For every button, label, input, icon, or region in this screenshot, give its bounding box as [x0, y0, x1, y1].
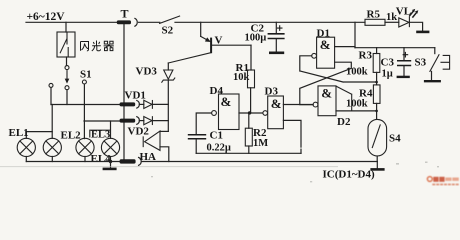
- wire lamp feed row 2: [84, 120, 120, 122]
- svg-text:&: &: [221, 94, 232, 109]
- svg-text:IC(D1~D4): IC(D1~D4): [323, 169, 375, 181]
- svg-text:T: T: [121, 7, 129, 21]
- wire from right socket down: [83, 84, 85, 139]
- resistor R3: [346, 48, 380, 85]
- connector plug VD2 row: [120, 117, 140, 125]
- capacitor C1: [188, 130, 231, 154]
- svg-text:1M: 1M: [253, 138, 268, 149]
- svg-text:VD1: VD1: [125, 90, 146, 102]
- wire D4-D3 link: [239, 112, 263, 114]
- resistor R5: [365, 9, 397, 26]
- wire flasher stub: [65, 22, 67, 32]
- diode (lower, row 2): [139, 117, 168, 125]
- svg-text:VL: VL: [396, 5, 411, 17]
- wire EL2 riser: [51, 105, 53, 139]
- svg-text:VD2: VD2: [128, 126, 150, 138]
- svg-text:&: &: [321, 86, 332, 101]
- connector T: [117, 7, 137, 27]
- switch S3 (pushbutton): [415, 48, 450, 81]
- svg-text:VD3: VD3: [136, 66, 158, 78]
- scan artifact line: [0, 166, 338, 168]
- wire D2 input 2: [336, 110, 377, 112]
- switch S4 (tilt/vibration): [368, 119, 401, 156]
- svg-text:EL2: EL2: [61, 130, 82, 142]
- lamp EL1: [9, 127, 36, 156]
- wire top rail left: [26, 21, 117, 23]
- wire VL to ground: [409, 22, 422, 31]
- wire EL4 riser: [110, 121, 112, 138]
- wire D1 input 1 to rail: [335, 46, 355, 48]
- diode VD3 (zener): [136, 66, 175, 132]
- svg-text:&: &: [271, 96, 282, 111]
- resistor R1: [233, 62, 255, 113]
- flasher box (闪光器): [57, 32, 75, 57]
- wire lamp feed row 1: [51, 104, 120, 106]
- socket left terminal: [49, 83, 53, 87]
- svg-text:+6~12V: +6~12V: [27, 11, 66, 23]
- lamp EL2: [43, 130, 81, 157]
- svg-text:D2: D2: [337, 116, 351, 128]
- wire top rail middle (T to S2): [139, 21, 160, 23]
- ground (VL): [416, 31, 429, 34]
- diode VD1: [139, 100, 168, 108]
- wire S4 bottom: [376, 156, 378, 162]
- LED VL: [396, 5, 419, 27]
- gate D1: [312, 28, 335, 69]
- gate D4: [210, 85, 240, 130]
- wire T bus vertical: [123, 25, 125, 160]
- wire base to R1: [250, 45, 252, 70]
- svg-text:0.22µ: 0.22µ: [207, 143, 231, 154]
- connector plug HA: [120, 151, 156, 165]
- socket S1 center terminal: [65, 86, 69, 90]
- wire collector to VD3: [167, 63, 169, 70]
- node lamp-ground junction: [109, 160, 112, 163]
- resistor R2: [245, 113, 268, 153]
- svg-text:S4: S4: [389, 133, 401, 145]
- wire EL3 label bracket: [90, 130, 111, 137]
- switch S1 right terminal: [82, 80, 86, 84]
- svg-text:C3: C3: [381, 57, 395, 69]
- capacitor C2: [245, 22, 285, 53]
- lamp EL3: [76, 129, 110, 156]
- svg-text:S2: S2: [162, 25, 174, 37]
- gate D3: [263, 86, 284, 129]
- wire from center socket down: [66, 90, 68, 105]
- wire bottom rail: [142, 161, 377, 163]
- svg-text:R3: R3: [359, 50, 373, 62]
- wire D2 corner link: [336, 86, 352, 111]
- wire right rail horizontal: [355, 47, 435, 49]
- wire from left socket down: [50, 87, 52, 104]
- wire R5 to VL: [385, 21, 399, 23]
- svg-text:&: &: [320, 37, 331, 52]
- svg-text:EL4: EL4: [91, 153, 112, 165]
- wire lamp bottom stubs: [26, 157, 110, 162]
- socket S1 terminal (flasher output): [66, 57, 68, 66]
- wire top rail right (S2 to R5): [175, 21, 365, 23]
- wire D3 input 1 to D2 output: [283, 104, 312, 106]
- wire D2 output cross-couple: [300, 62, 352, 104]
- svg-text:100k: 100k: [346, 67, 368, 78]
- gate D2: [313, 86, 351, 129]
- wire D4 output to C1: [196, 113, 211, 134]
- wire C1 bottom run: [196, 152, 301, 154]
- svg-text:S1: S1: [80, 69, 92, 81]
- wire lamp bottom rail: [26, 161, 120, 163]
- svg-text:C1: C1: [210, 130, 223, 142]
- svg-text:100µ: 100µ: [245, 33, 267, 44]
- watermark logo: [427, 177, 458, 186]
- wire right rail vertical: [354, 22, 356, 47]
- node R4/S4 junction: [375, 110, 378, 113]
- wire D1 output cross-couple: [300, 56, 377, 82]
- resistor R4: [346, 85, 380, 120]
- label 闪光器 (drawn glyphs): [81, 41, 114, 51]
- node R3/R4 junction: [375, 81, 378, 84]
- capacitor C3: [381, 48, 412, 80]
- connector plug VD1: [120, 90, 146, 109]
- svg-text:S3: S3: [415, 57, 427, 69]
- svg-text:R5: R5: [367, 9, 381, 21]
- svg-text:1µ: 1µ: [382, 69, 393, 80]
- svg-text:100k: 100k: [346, 99, 368, 110]
- node R1/R2 junction: [248, 111, 251, 114]
- ground (lamps): [110, 162, 112, 169]
- wire D3 input 2 to C1: [283, 120, 301, 153]
- diode VD2 (large, pointing left): [143, 131, 169, 162]
- switch S2: [160, 16, 180, 36]
- transistor V: [168, 22, 251, 63]
- plug arrow: [66, 71, 68, 79]
- svg-text:EL1: EL1: [9, 127, 29, 139]
- lamp EL4: [91, 138, 120, 165]
- ground (bottom right): [376, 162, 378, 169]
- wire EL1 branch: [26, 132, 52, 139]
